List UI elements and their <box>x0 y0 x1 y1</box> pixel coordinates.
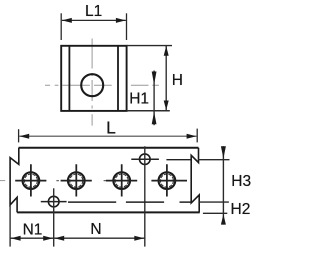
main centerline of holes <box>0 180 5 182</box>
hole 4 inner <box>160 174 173 187</box>
centerline horizontal (block) <box>45 84 159 86</box>
svg-text:H: H <box>172 72 183 89</box>
dimension L1 line <box>62 19 126 21</box>
small hole top vertical line + N extension <box>144 146 146 246</box>
L left arrow <box>19 134 29 139</box>
H extension line top <box>127 45 172 47</box>
small hole bottom crosshair <box>41 201 67 203</box>
svg-text:L: L <box>106 118 116 138</box>
dimension H1 line <box>153 71 155 126</box>
hidden step line y202 (dashed) <box>68 201 191 203</box>
svg-text:H1: H1 <box>129 90 149 107</box>
right break edge <box>191 148 199 213</box>
H top arrow <box>164 46 169 56</box>
N1/N dimension line <box>10 237 145 239</box>
small hole bottom <box>48 196 59 207</box>
N left arrow <box>54 236 64 241</box>
block inner left groove line <box>68 46 70 111</box>
dimension H line <box>165 46 167 110</box>
plate bottom edge <box>17 211 200 213</box>
L right arrow <box>187 134 197 139</box>
hole 1 outer <box>23 172 40 189</box>
svg-text:H3: H3 <box>231 173 251 190</box>
hole 4 crosshair <box>151 164 187 196</box>
hole 3 inner <box>115 174 128 187</box>
centerline vertical (block) <box>91 39 93 126</box>
svg-text:L1: L1 <box>85 3 102 20</box>
N1 left arrow <box>11 236 21 241</box>
L1 left arrow <box>62 18 72 23</box>
N right arrow <box>134 236 144 241</box>
H3/H2 dimension line <box>222 146 224 224</box>
hole 2 outer <box>68 172 85 189</box>
H2 bottom outside arrow (points up) <box>221 214 226 224</box>
N1 left extension line <box>9 205 11 247</box>
hole 1 inner <box>24 174 37 187</box>
hole 2 crosshair <box>61 164 92 196</box>
plate top edge <box>19 147 199 149</box>
H2 lower extension line <box>203 212 227 214</box>
step line y159.5 dash right of top hole <box>166 159 190 161</box>
H extension line bottom <box>127 110 170 112</box>
svg-text:N1: N1 <box>23 221 43 238</box>
hole 3 outer <box>113 172 130 189</box>
H2 upper extension line <box>199 201 229 203</box>
block inner right groove line <box>117 46 119 111</box>
L1 right arrow <box>116 18 126 23</box>
hole circle (block) <box>81 74 103 96</box>
H1 upper arrow (points down to centerline) <box>152 72 157 85</box>
small hole top crosshair <box>131 158 159 160</box>
block outline <box>61 46 126 111</box>
H3 upper extension line <box>198 159 229 161</box>
dimension L1 extension lines <box>61 13 126 40</box>
hole 1 crosshair <box>15 164 46 196</box>
centerline dots between holes <box>56 180 106 182</box>
left break edge <box>10 148 19 213</box>
hole 4 outer <box>159 172 176 189</box>
dimension L line <box>19 135 196 137</box>
hole 2 inner <box>70 174 83 187</box>
svg-text:N: N <box>90 221 101 238</box>
N1 right arrow <box>43 236 53 241</box>
dimension L extension lines <box>19 129 198 143</box>
svg-text:H2: H2 <box>231 201 251 218</box>
H3 top outside arrow (points down) <box>221 146 226 158</box>
small hole bottom vertical line + N extension <box>53 188 55 246</box>
small hole top <box>140 154 151 165</box>
H bottom arrow <box>164 101 169 111</box>
H1 lower arrow (points up to block bottom) <box>152 112 157 125</box>
hole 3 crosshair <box>106 164 137 196</box>
